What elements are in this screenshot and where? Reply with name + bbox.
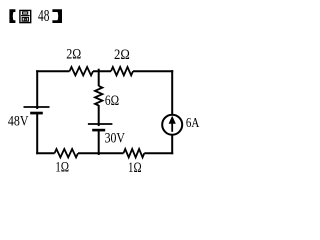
svg-text:1Ω: 1Ω [128, 160, 142, 176]
wire bottom-left segment [36, 152, 54, 154]
battery B2 30V positive plate [88, 123, 113, 125]
wire bottom-middle segment [78, 152, 124, 154]
wire top-right segment [133, 70, 173, 72]
resistor R3 6Ω middle [95, 86, 102, 106]
svg-text:2Ω: 2Ω [66, 47, 81, 63]
svg-text:6A: 6A [186, 115, 200, 130]
svg-text:30V: 30V [105, 131, 126, 147]
wire right side lower [171, 135, 173, 154]
resistor R2 2Ω top-right [111, 67, 133, 75]
svg-text:1Ω: 1Ω [55, 160, 69, 176]
wire middle branch lower [98, 131, 100, 156]
svg-text:6Ω: 6Ω [105, 93, 119, 109]
wire top-left segment [36, 70, 69, 72]
figure title character 圖 [20, 10, 31, 22]
current source I1 6A circle [162, 115, 182, 135]
svg-text:48V: 48V [8, 114, 29, 130]
node A junction of middle branch with top wire [98, 69, 100, 86]
battery B1 48V positive plate [24, 106, 50, 108]
wire middle branch between resistor and battery [98, 105, 100, 126]
resistor R1 2Ω top-left [70, 67, 94, 75]
resistor R5 1Ω bottom-right [124, 149, 145, 157]
svg-text:2Ω: 2Ω [114, 47, 130, 63]
wire left side lower [36, 113, 38, 154]
wire left side upper [36, 70, 38, 109]
figure title bracket 】 [52, 9, 62, 23]
current source I1 arrow shaft [171, 122, 173, 132]
figure title bracket 【 [9, 9, 15, 23]
wire top-middle segment [93, 70, 111, 72]
resistor R4 1Ω bottom-left [55, 149, 79, 157]
svg-text:48: 48 [38, 6, 49, 25]
battery B2 30V negative plate [92, 129, 105, 132]
wire right side upper [171, 70, 173, 114]
current source I1 arrow head [169, 116, 176, 124]
battery B1 48V negative plate [30, 112, 43, 115]
wire bottom-right segment [144, 152, 173, 154]
